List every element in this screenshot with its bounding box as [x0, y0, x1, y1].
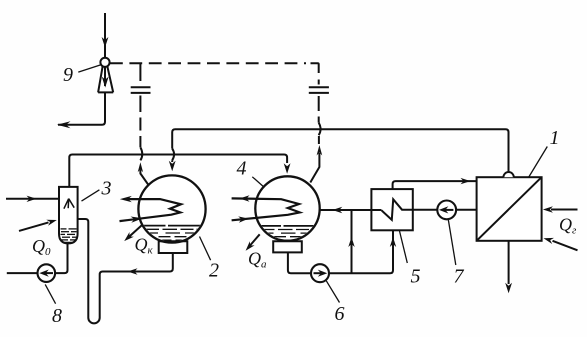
svg-text:7: 7 [454, 266, 465, 288]
wind turbine 9: tower [98, 67, 113, 93]
label 3 leader [82, 190, 100, 201]
svg-text:5: 5 [411, 266, 421, 288]
wire: vapor line from boiler 2 top-left [140, 170, 148, 186]
vessel 3 liquid hatching [61, 228, 67, 230]
vessel 3 spray arrow [64, 199, 74, 209]
arrow Q0 into vessel 3 [19, 222, 49, 231]
pump 6 [311, 264, 329, 282]
wire (dashed): left capacitor down to hop [139, 96, 141, 148]
pipe: apparatus 1 bottom outlet [508, 241, 510, 284]
label 8 leader [45, 284, 55, 303]
label 9 leader [78, 65, 100, 72]
boiler 2 liquid hatching [141, 226, 202, 241]
label 7 leader [448, 220, 456, 265]
svg-text:8: 8 [52, 305, 62, 327]
wire: solid drop into boiler 4 upper right [310, 153, 319, 183]
svg-text:Qг: Qг [559, 215, 577, 237]
label 4 leader [252, 177, 264, 188]
wire (dashed electrical): turbine bus to right drop corner [110, 62, 306, 64]
wind turbine 9: hub circle [100, 58, 109, 67]
svg-text:9: 9 [63, 64, 73, 86]
pipe: vessel 3 outlet to pump 8 and left [7, 243, 68, 273]
capacitor (right slip contact) plates [309, 87, 329, 93]
pipe: inlet into vessel 3 from left [6, 198, 59, 200]
wire: turbine outlet to left arrow [58, 92, 105, 124]
label 1 leader [529, 147, 548, 178]
HX 5 zigzag [382, 199, 477, 220]
label 2 leader [200, 237, 211, 261]
condenser vessel 3 body [59, 187, 78, 244]
arrow: down into boiler 2 [171, 160, 173, 162]
wire (dashed): right capacitor down to hop [318, 96, 320, 123]
pipe B: vessel 3 to boiler 4 top [69, 155, 287, 187]
wire hop: dashed line crossing over pipe B at x=140 [140, 147, 142, 160]
apparatus 1 inlet dome [503, 172, 513, 177]
boiler 4 heating dart [232, 198, 300, 220]
pump 8 [38, 264, 56, 282]
wire (dashed): below hop to up-arrow, right branch [318, 136, 320, 144]
capacitor (left slip contact) plates [131, 87, 151, 93]
label 5 leader [400, 231, 408, 263]
pump 7 [437, 201, 456, 220]
arrow: gas feed into apparatus 1 right [551, 209, 578, 211]
wire: pipe A down into dome [508, 170, 510, 173]
svg-text:4: 4 [237, 158, 247, 180]
arrow Qk out of boiler 2 [129, 224, 143, 237]
label 6 leader [326, 281, 339, 303]
wire (dashed): left capacitor stem above [139, 64, 141, 82]
pipe A: boiler 2 top line to apparatus 1 [172, 129, 508, 171]
wire hop: dashed line crossing over pipe A at x=319 [319, 123, 321, 136]
boiler 2 heating dart [120, 199, 182, 221]
solution pipe: boiler 4 right side through HX 5 and pump 7 to apparatus 1 [320, 209, 382, 211]
apparatus 1 diagonal [477, 178, 541, 240]
boiler 4 pedestal [273, 241, 302, 252]
apparatus 1 body [477, 177, 542, 241]
wind turbine 9: inner arrow [104, 67, 106, 86]
pipe: boiler 4 outlet through pump 6 to HX 5 [288, 230, 393, 273]
svg-text:Qа: Qа [248, 249, 267, 271]
wire hop: pipe A drop crossing pipe B at x=172 [172, 149, 174, 161]
wire: corner dash of dashed bus [311, 63, 319, 73]
wire (dashed): right capacitor stem above [318, 80, 320, 85]
arrow Qg diagonal into apparatus 1 [553, 241, 578, 251]
boiler 2 pedestal [159, 241, 188, 253]
svg-text:3: 3 [101, 178, 112, 200]
pipe: hydraulic seal U-tube from vessel 3 to boiler 2 bottom [78, 219, 173, 323]
svg-text:6: 6 [335, 303, 345, 325]
arrow Qa out of boiler 4 [250, 234, 260, 245]
svg-text:1: 1 [550, 127, 560, 149]
pipe: HX 5 top to apparatus 1 [393, 181, 477, 189]
wire: feed line into wind turbine [104, 13, 106, 58]
absorber (boiler) 4 [255, 176, 319, 240]
svg-text:Q0: Q0 [32, 236, 51, 258]
svg-text:Qк: Qк [135, 235, 154, 257]
arrow: vapor from boiler 2 up into pipe B [138, 162, 143, 172]
heat exchanger 5 body [371, 189, 412, 230]
svg-text:2: 2 [209, 260, 219, 282]
boiler 4 liquid hatching [258, 226, 317, 240]
boiler (generator) 2 [138, 175, 205, 242]
pipe: riser from pump line to solution line [351, 210, 353, 273]
